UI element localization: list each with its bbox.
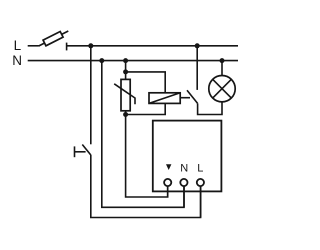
wire N rail (28, 60, 238, 62)
wire coil bottom feed (126, 103, 166, 114)
device box U1 (153, 121, 222, 192)
wire terminal 2 stub (183, 186, 185, 207)
node junction dot L/contact (195, 43, 200, 48)
terminal arrow label (166, 164, 171, 170)
varistor R1 body (121, 79, 130, 110)
wire terminal 1 stub (167, 186, 169, 197)
varistor R1 diagonal (114, 84, 135, 104)
wire control drop (126, 115, 168, 198)
node junction dot L/button (88, 43, 93, 48)
wire lamp top (221, 61, 223, 76)
svg-text:N: N (12, 53, 22, 68)
push-button S1 blade (82, 145, 91, 156)
wire terminal 3 stub (200, 186, 202, 217)
lamp E1 cross (213, 79, 232, 98)
relay coil K1 body (149, 93, 180, 104)
terminal circle 1 (164, 179, 171, 186)
svg-text:N: N (180, 162, 188, 174)
fuse-switch F1 body (43, 31, 63, 45)
wire contact drop from L (196, 46, 198, 90)
push-button S1 actuator stem (75, 151, 86, 153)
wire varistor bottom stub (125, 111, 127, 115)
fuse-switch F1 blade (39, 31, 69, 46)
wire L lead-in (28, 45, 39, 47)
terminal circle 2 (180, 179, 187, 186)
svg-text:L: L (14, 38, 22, 53)
wire L rail (67, 45, 238, 47)
node junction dot N/varistor (123, 58, 128, 63)
push-button S1 actuator bar (74, 146, 76, 157)
fuse-switch F1 fixed contact bar (66, 43, 68, 51)
node junction dot N/lamp (220, 58, 225, 63)
wire N drop (102, 61, 184, 208)
svg-text:L: L (197, 162, 203, 174)
relay K1 mechanical link (180, 97, 190, 99)
wire coil top feed (126, 72, 166, 93)
relay coil K1 diagonal (149, 93, 180, 104)
wire contact to lamp (198, 102, 222, 115)
wire button drop upper (90, 46, 92, 145)
terminal circle 3 (197, 179, 204, 186)
lamp E1 circle (209, 76, 235, 102)
node junction dot varistor/coil top (123, 69, 128, 74)
relay contact K1.1 blade (187, 90, 198, 103)
node junction dot N/x101 (99, 58, 104, 63)
wire varistor top stub (125, 61, 127, 80)
node junction dot varistor/coil bottom (123, 112, 128, 117)
wire button drop lower (91, 155, 201, 218)
